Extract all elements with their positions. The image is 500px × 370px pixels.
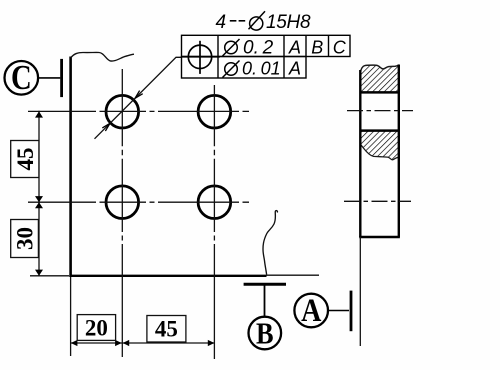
hole bottom-right — [198, 186, 231, 219]
side centerline row1 — [347, 110, 413, 112]
svg-text:45: 45 — [13, 148, 38, 171]
hole top-right — [198, 95, 231, 128]
hole top-left — [106, 95, 139, 128]
svg-text:0. 2: 0. 2 — [243, 38, 274, 59]
svg-text:C: C — [333, 37, 347, 57]
diameter symbol row2 — [223, 61, 240, 78]
svg-text:30: 30 — [13, 227, 38, 250]
svg-text:A: A — [288, 37, 301, 57]
diameter symbol callout — [249, 11, 266, 30]
svg-text:B: B — [256, 316, 274, 350]
datum A connector — [328, 310, 349, 312]
dim box 45 (left) — [11, 141, 39, 178]
part left edge — [69, 57, 72, 278]
top break line (wavy) — [71, 52, 134, 61]
side view top break line — [360, 65, 399, 73]
divider after symbol cell — [217, 35, 219, 78]
hole upper edge line — [360, 91, 399, 94]
double arrow at 45/30 junction — [35, 196, 43, 202]
divider A/B top row — [305, 35, 307, 56]
datum C connector — [38, 77, 60, 79]
centerline horizontal row2 — [71, 201, 249, 203]
bottom dimension line — [71, 342, 215, 344]
position symbol — [181, 41, 220, 74]
leader arrow lower-left of hole — [102, 123, 110, 131]
centerline vertical col1 — [121, 69, 123, 277]
side view bottom edge — [359, 236, 400, 238]
extension line col1 below part — [121, 277, 123, 357]
centerline horizontal row1 — [71, 110, 249, 112]
dim box 30 (left) — [11, 220, 39, 258]
extension line row2 left — [28, 201, 71, 203]
svg-text:45: 45 — [155, 317, 178, 342]
svg-text:A: A — [301, 292, 321, 329]
double arrow at 20/45 junction — [115, 340, 122, 346]
datum B stem — [264, 284, 266, 317]
arrow up at 45 top — [35, 111, 43, 117]
svg-text:B: B — [311, 37, 323, 57]
left edge extension line — [70, 277, 72, 356]
centerline vertical col2 — [213, 85, 215, 277]
part bottom edge — [69, 275, 266, 277]
hole bottom-left — [106, 186, 139, 219]
arrow down at 30 bottom — [35, 270, 43, 276]
datum B target bar — [244, 283, 286, 286]
arrow left at 20 — [71, 340, 78, 346]
arrow right at 45 — [208, 340, 215, 346]
vertical dimension line — [38, 111, 40, 276]
hatch region upper — [360, 65, 399, 92]
leader arrow upper-right of hole — [135, 91, 143, 99]
datum A target bar — [350, 291, 353, 332]
svg-text:C: C — [11, 57, 32, 96]
svg-text:A: A — [288, 59, 301, 79]
svg-text:4: 4 — [216, 12, 227, 33]
datum B circle — [248, 317, 281, 350]
bottom edge extension left — [30, 275, 69, 277]
diameter symbol row1 — [223, 39, 240, 56]
side view right edge — [398, 65, 400, 238]
dim box 45 (bottom) — [147, 316, 186, 343]
svg-text:15H8: 15H8 — [266, 12, 311, 33]
dash dash — [230, 20, 237, 22]
dim box 20 (bottom) — [77, 315, 115, 341]
svg-text:0. 01: 0. 01 — [242, 59, 281, 79]
extension line row1 left — [28, 110, 71, 112]
side view left edge — [359, 70, 361, 237]
bottom edge thin continuation — [267, 274, 320, 276]
side view hatch lower wavy boundary — [360, 144, 399, 160]
extension line col2 below part — [213, 277, 215, 359]
hatch region lower (partial with wavy bottom) — [360, 131, 399, 160]
datum C target bar — [60, 59, 63, 97]
hole lower edge line — [360, 129, 399, 132]
right break line (wavy) — [263, 211, 277, 275]
datum C circle — [5, 61, 39, 95]
datum A circle — [294, 294, 328, 328]
side view left edge extension — [359, 237, 361, 346]
svg-text:20: 20 — [85, 316, 108, 341]
divider B/C top row — [328, 35, 330, 56]
FCF outer box top row — [182, 35, 351, 56]
leader line — [95, 57, 182, 139]
side centerline row2 — [344, 200, 411, 202]
divider after value cell — [283, 35, 285, 78]
FCF bottom row box — [182, 57, 307, 79]
